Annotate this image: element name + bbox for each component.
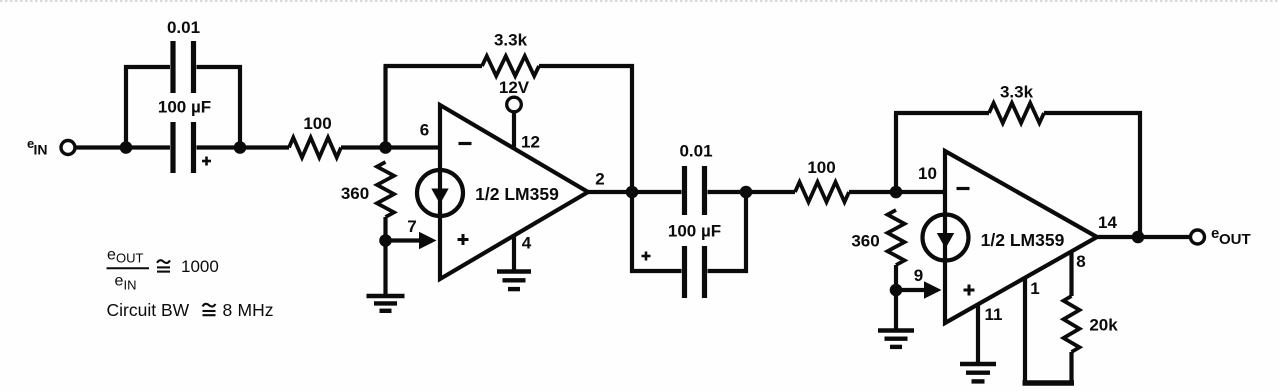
svg-text:100 µF: 100 µF bbox=[668, 222, 721, 241]
ground G2 at pin 4 bbox=[497, 269, 531, 273]
capacitor C3 0.01 plates bbox=[682, 166, 687, 215]
svg-text:3.3k: 3.3k bbox=[494, 31, 528, 50]
node G junction bbox=[890, 186, 903, 199]
caption approx-equals 1 bbox=[157, 260, 170, 263]
wire input terminal to node A bbox=[76, 145, 127, 149]
wire node A up to top branch bbox=[126, 67, 170, 148]
resistor R7 20k bbox=[1064, 296, 1080, 352]
op-amp U2 triangle bbox=[945, 151, 1097, 323]
pin 8 wire down bbox=[1069, 251, 1073, 296]
svg-text:1/2 LM359: 1/2 LM359 bbox=[981, 230, 1065, 250]
svg-text:0.01: 0.01 bbox=[167, 18, 200, 37]
bottom branch left vertical from node E bbox=[632, 192, 682, 271]
supply terminal circle 12V bbox=[507, 97, 522, 112]
node E junction bbox=[626, 186, 639, 199]
U1 non-inverting input plus sign bbox=[458, 238, 469, 241]
node I junction bbox=[1132, 231, 1145, 244]
resistor R5 3.3k feedback stage 2 bbox=[989, 103, 1044, 123]
svg-text:1000: 1000 bbox=[181, 257, 219, 276]
svg-text:0.01: 0.01 bbox=[679, 142, 712, 161]
pin 4 wire to ground bbox=[512, 236, 516, 271]
resistor R6 360 bbox=[888, 210, 905, 265]
ground G4 at pin 11 bbox=[960, 362, 996, 366]
node A junction bbox=[120, 141, 133, 154]
caption fraction bar bbox=[107, 267, 150, 269]
op-amp U1 triangle bbox=[440, 105, 588, 279]
wire R4 to node G / pin 10 of U2 bbox=[849, 190, 944, 194]
svg-text:e: e bbox=[115, 273, 124, 290]
wire node H to ground G3 bbox=[894, 290, 898, 329]
wire node C up to feedback (left vertical) bbox=[383, 66, 387, 148]
svg-text:3.3k: 3.3k bbox=[1000, 83, 1034, 102]
wire node B to R1 bbox=[240, 145, 289, 149]
resistor R3 360 bbox=[377, 162, 394, 217]
svg-text:OUT: OUT bbox=[116, 251, 144, 266]
resistor R2 3.3k feedback stage 1 bbox=[482, 56, 539, 76]
svg-text:12: 12 bbox=[521, 133, 540, 152]
bottom branch right vertical to node F bbox=[708, 192, 747, 271]
svg-text:2: 2 bbox=[595, 170, 604, 189]
polarity + of C4 bbox=[642, 255, 651, 258]
svg-text:9: 9 bbox=[914, 266, 923, 285]
ground G3 bbox=[878, 328, 914, 332]
pin 11 wire to ground bbox=[976, 304, 980, 362]
capacitor C1 0.01 plates bbox=[170, 41, 175, 93]
capacitor C4 100uF plates bbox=[682, 246, 687, 298]
wire C2 right plate to node B bbox=[197, 145, 241, 149]
svg-text:IN: IN bbox=[124, 278, 137, 293]
svg-text:20k: 20k bbox=[1089, 316, 1118, 335]
svg-text:7: 7 bbox=[407, 217, 416, 236]
svg-text:360: 360 bbox=[341, 184, 369, 203]
U2 inverting input minus sign bbox=[957, 187, 970, 190]
ground G1 bbox=[367, 294, 405, 298]
output terminal eOUT bbox=[1191, 230, 1205, 244]
U2 current source symbol bbox=[923, 215, 969, 261]
resistor R4 100 bbox=[795, 182, 849, 202]
wire R3 to node D bbox=[383, 217, 387, 241]
node H junction bbox=[890, 284, 903, 297]
U1 current source symbol bbox=[417, 170, 463, 216]
feedback top wire right segment bbox=[539, 64, 634, 68]
svg-text:8: 8 bbox=[1076, 252, 1085, 271]
U2 non-inverting input plus sign bbox=[964, 289, 975, 292]
svg-text:11: 11 bbox=[985, 305, 1003, 324]
feedback top wire left segment stage 2 bbox=[894, 111, 989, 115]
wire 20k bottom to U bottom bbox=[1069, 352, 1073, 383]
pin 1 wire down bbox=[1023, 278, 1027, 382]
svg-text:1: 1 bbox=[1030, 279, 1039, 298]
node B junction bbox=[234, 141, 247, 154]
wire node G up to feedback (left vertical) bbox=[894, 113, 898, 192]
pin 7 arrow wire into + input bbox=[386, 238, 422, 242]
svg-text:100: 100 bbox=[303, 114, 331, 133]
feedback right vertical down to node E bbox=[630, 64, 634, 192]
node D junction bbox=[379, 234, 392, 247]
wire U2 output to node I bbox=[1097, 235, 1191, 239]
feedback top wire right segment stage 2 bbox=[1044, 111, 1142, 115]
input terminal eIN bbox=[61, 141, 75, 155]
wire node A to C2 bbox=[126, 145, 170, 149]
node C junction bbox=[379, 141, 392, 154]
wire R1 to node C / pin 6 of U1 bbox=[341, 145, 438, 149]
node F junction bbox=[740, 186, 753, 199]
svg-text:6: 6 bbox=[420, 121, 429, 140]
wire node D to ground G1 bbox=[383, 241, 387, 295]
svg-text:10: 10 bbox=[918, 164, 937, 183]
svg-text:e: e bbox=[107, 247, 116, 264]
svg-text:100: 100 bbox=[807, 158, 835, 177]
svg-text:14: 14 bbox=[1098, 213, 1117, 232]
caption approx-equals 2 bbox=[203, 304, 216, 307]
svg-text:360: 360 bbox=[851, 232, 879, 251]
top page border (faint dotted) bbox=[0, 0, 1279, 2]
feedback top wire left segment bbox=[384, 64, 483, 68]
wire C3 right plate to node F bbox=[708, 190, 747, 194]
svg-text:12V: 12V bbox=[499, 78, 530, 97]
capacitor C2 100uF plates bbox=[170, 122, 175, 173]
wire node F to R4 bbox=[746, 190, 795, 194]
wire U1 output to node E bbox=[588, 190, 682, 194]
svg-text:4: 4 bbox=[522, 234, 532, 253]
wire C1 right plate to node B bbox=[197, 67, 241, 148]
svg-text:MHz: MHz bbox=[238, 300, 274, 320]
U1 inverting input minus sign bbox=[459, 142, 472, 145]
resistor R1 100 bbox=[289, 138, 341, 158]
svg-text:8: 8 bbox=[223, 300, 233, 320]
svg-text:1/2 LM359: 1/2 LM359 bbox=[475, 184, 559, 204]
wire R6 to node H bbox=[894, 265, 898, 290]
feedback right vertical down to node I bbox=[1138, 111, 1142, 237]
svg-text:100 µF: 100 µF bbox=[158, 98, 211, 117]
svg-text:IN: IN bbox=[34, 142, 48, 158]
pin 12 supply wire bbox=[512, 112, 516, 149]
bottom U wire pin8 to pin1 bbox=[1023, 380, 1075, 385]
polarity + of C2 bbox=[202, 160, 211, 163]
svg-text:Circuit BW: Circuit BW bbox=[107, 300, 190, 320]
pin 9 arrow wire into + input bbox=[896, 288, 926, 292]
svg-text:OUT: OUT bbox=[1219, 231, 1251, 248]
